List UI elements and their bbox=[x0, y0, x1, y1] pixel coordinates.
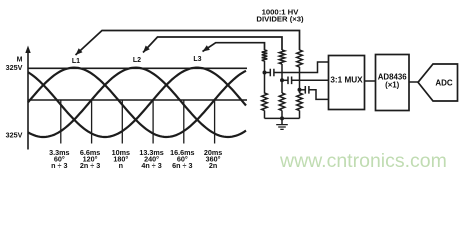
node ground junction bbox=[280, 116, 284, 120]
node time ticks bbox=[61, 100, 215, 144]
op-amp U3 ADC bbox=[418, 64, 458, 101]
wire phase L1 sine bbox=[28, 68, 246, 137]
svg-text:ADC: ADC bbox=[435, 78, 453, 87]
node time labels bbox=[49, 148, 222, 170]
resistor R3 top (chain 2) bbox=[279, 50, 285, 64]
wire AD8436 to ADC bbox=[409, 81, 418, 83]
svg-text:n ÷ 3: n ÷ 3 bbox=[51, 161, 67, 170]
wire +325V level line bbox=[28, 67, 247, 69]
resistor R4 bottom (chain 2) bbox=[281, 80, 283, 93]
node tap 3 bbox=[298, 88, 302, 92]
svg-text:L1: L1 bbox=[72, 58, 80, 65]
node divider title bbox=[256, 8, 304, 24]
wire chain3 resistor bottom lead bbox=[299, 111, 301, 119]
svg-text:2n ÷ 3: 2n ÷ 3 bbox=[80, 161, 100, 170]
svg-text:(×1): (×1) bbox=[385, 81, 400, 90]
capacitor C3 bbox=[300, 86, 309, 94]
resistor R1 top (chain 1) bbox=[262, 50, 268, 61]
op-amp U2 AD8436 bbox=[376, 55, 410, 111]
svg-text:6n ÷ 3: 6n ÷ 3 bbox=[172, 161, 192, 170]
svg-text:n: n bbox=[119, 161, 123, 170]
svg-text:325V: 325V bbox=[6, 131, 23, 140]
node tap 2 bbox=[280, 78, 284, 82]
resistor R2 bottom (chain 1) bbox=[262, 73, 268, 111]
capacitor C1 bbox=[265, 69, 274, 77]
node M (measurement axis) bbox=[25, 46, 30, 150]
wire phase L3 sine bbox=[28, 68, 246, 137]
wire C2 to MUX input 2 bbox=[292, 79, 329, 81]
resistor R6 bottom (chain 3) bbox=[299, 90, 301, 93]
wire L3 probe to divider input 1 bbox=[203, 43, 265, 52]
svg-text:L2: L2 bbox=[133, 57, 141, 64]
svg-text:L3: L3 bbox=[193, 56, 201, 63]
wire chain1 to node1 bbox=[264, 61, 266, 73]
wire chain2 resistor bottom lead bbox=[281, 111, 283, 119]
svg-text:DIVIDER (×3): DIVIDER (×3) bbox=[256, 14, 304, 23]
svg-text:2n: 2n bbox=[209, 161, 217, 170]
wire chain2 to node2 bbox=[281, 64, 283, 80]
wire L1 probe to divider input 3 bbox=[76, 31, 300, 56]
svg-text:325V: 325V bbox=[6, 63, 23, 72]
wire C3 to MUX input 3 bbox=[309, 90, 329, 100]
node tap 1 bbox=[263, 71, 267, 75]
svg-text:4n ÷ 3: 4n ÷ 3 bbox=[141, 161, 161, 170]
wire C1 to MUX input 1 bbox=[274, 62, 329, 73]
capacitor C2 bbox=[282, 77, 292, 85]
op-amp U1 3:1 MUX bbox=[329, 56, 365, 110]
svg-text:3:1 MUX: 3:1 MUX bbox=[330, 75, 363, 84]
resistor R5 top (chain 3) bbox=[297, 50, 303, 67]
wire ground rail bbox=[265, 117, 300, 119]
wire MUX to AD8436 bbox=[365, 80, 376, 82]
wire zero axis line bbox=[28, 99, 247, 101]
wire phase L2 sine bbox=[28, 68, 246, 137]
svg-text:www.cntronics.com: www.cntronics.com bbox=[279, 150, 447, 172]
wire chain1 resistor bottom lead bbox=[264, 111, 266, 119]
ground bbox=[276, 118, 288, 129]
wire L2 probe to divider input 2 bbox=[143, 37, 282, 53]
wire chain3 to node3 bbox=[299, 67, 301, 90]
